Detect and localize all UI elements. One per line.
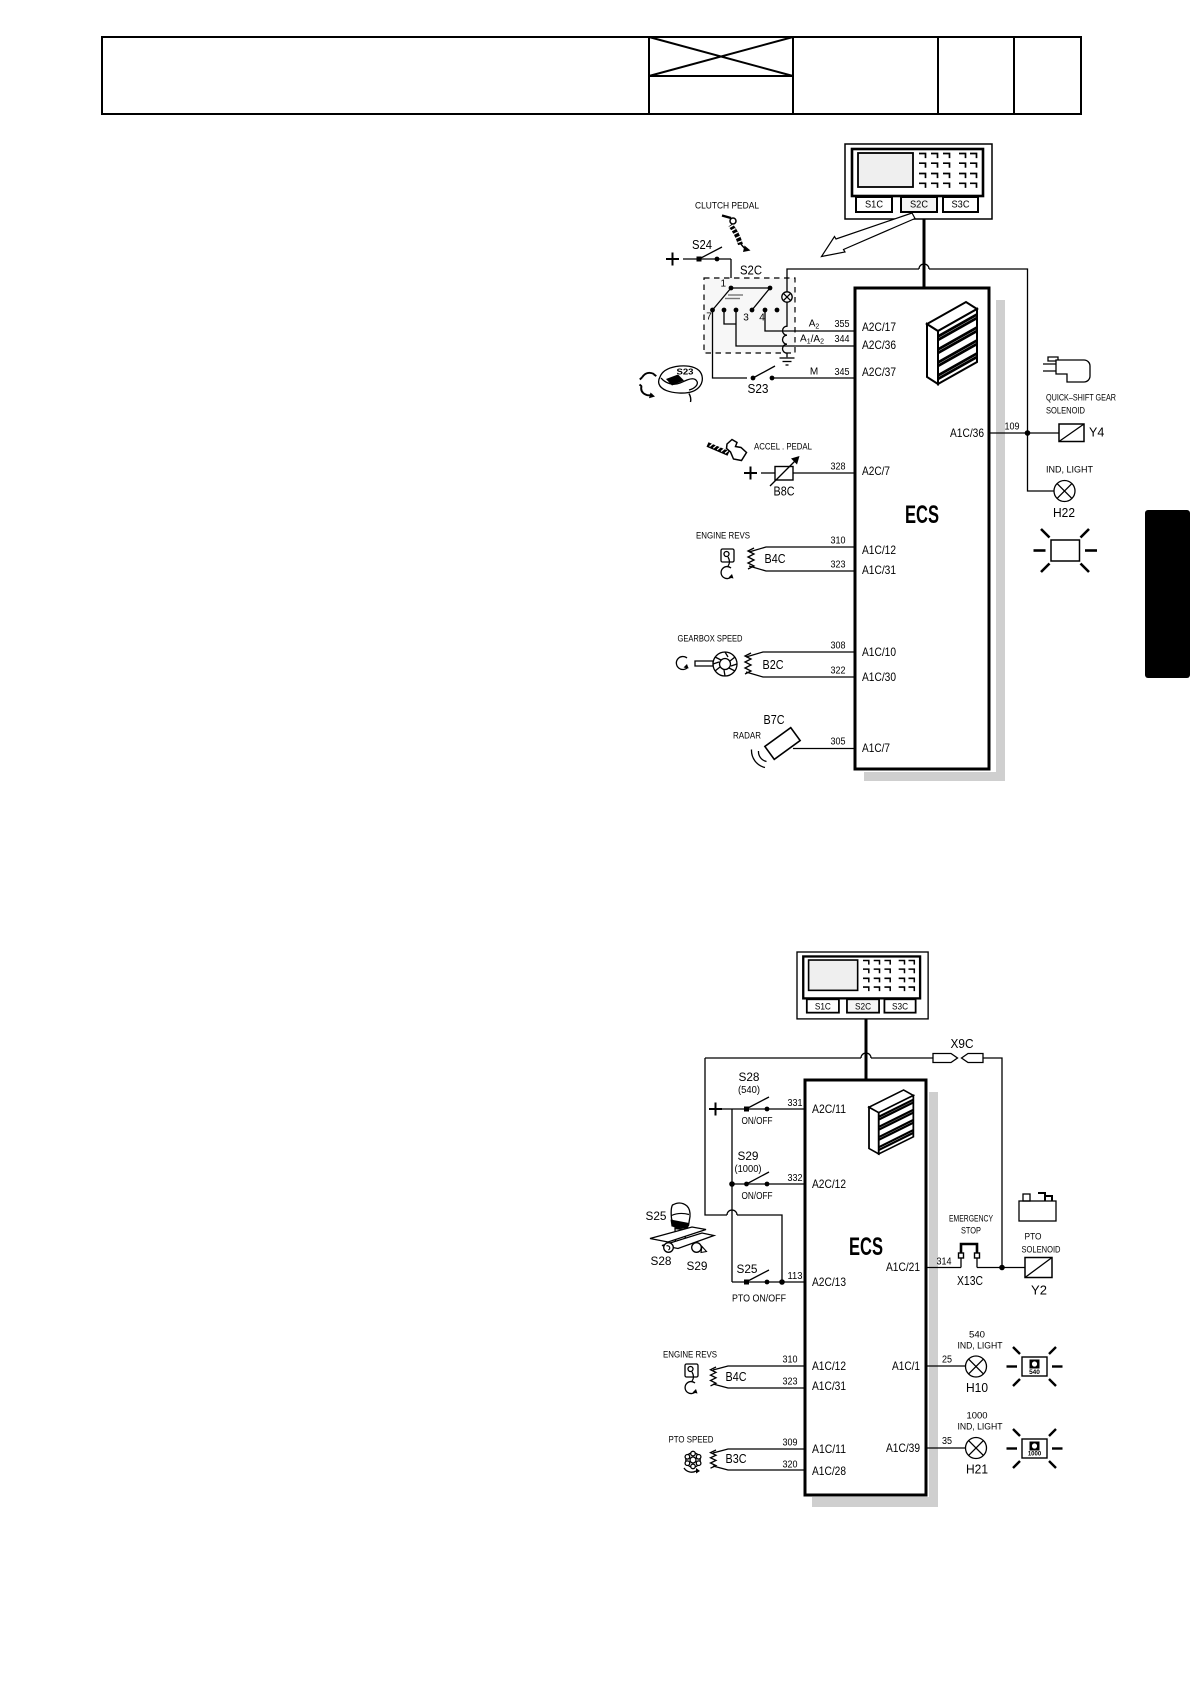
svg-text:PTO ON/OFF: PTO ON/OFF — [732, 1294, 786, 1305]
emergency stop jumper X13C — [957, 1244, 983, 1288]
gearbox speed sensor icon — [676, 652, 737, 676]
PTO speed sensor icon — [684, 1451, 701, 1473]
svg-text:SOLENOID: SOLENOID — [1046, 406, 1085, 417]
svg-text:322: 322 — [831, 666, 846, 677]
wire A1C/39 to H21 — [926, 1447, 966, 1449]
junction at Y2 branch — [999, 1265, 1005, 1271]
switch S24 — [683, 238, 731, 262]
svg-text:A1C/31: A1C/31 — [812, 1379, 846, 1393]
connector icon inside ECS 2 — [869, 1090, 913, 1154]
connector X9C — [933, 1054, 983, 1063]
wire pin7 down to S23 — [713, 310, 748, 378]
wire from lamp top over to Y4/H22 branch — [787, 269, 1028, 433]
svg-text:S25: S25 — [737, 1262, 758, 1276]
svg-text:355: 355 — [835, 319, 850, 330]
flashing 1000 indicator icon — [1007, 1429, 1063, 1468]
svg-text:S25: S25 — [646, 1209, 667, 1223]
engine revs sensor icon — [721, 549, 734, 579]
svg-text:Y2: Y2 — [1031, 1283, 1047, 1298]
quick-shift solenoid icon — [1043, 357, 1090, 382]
arrow pointing to S2C button — [822, 213, 916, 257]
svg-text:S29: S29 — [687, 1259, 708, 1273]
ECS1 pin labels — [862, 320, 984, 755]
wire S24 to S2C pin1 — [730, 259, 732, 288]
wire 355 to A2C/17 — [789, 330, 855, 332]
wire 305 to A1C/7 — [793, 748, 855, 750]
switch S29 — [729, 1149, 805, 1202]
svg-text:PTO SPEED: PTO SPEED — [669, 1435, 714, 1446]
svg-text:1: 1 — [720, 279, 726, 290]
svg-text:S23: S23 — [748, 382, 769, 396]
supply rail to S25/S29 — [731, 1109, 733, 1282]
wire hop at PTO branch — [727, 1210, 737, 1215]
wire from display S2C down to ECS — [923, 219, 926, 288]
indicator lamp H21 — [966, 1438, 987, 1459]
svg-text:540: 540 — [1029, 1369, 1040, 1376]
svg-text:S28: S28 — [739, 1070, 760, 1084]
black side tab — [1145, 510, 1190, 678]
svg-text:A1C/39: A1C/39 — [886, 1441, 920, 1455]
svg-text:H22: H22 — [1053, 506, 1075, 520]
svg-text:A1C/30: A1C/30 — [862, 670, 896, 684]
svg-text:328: 328 — [831, 462, 846, 473]
svg-text:B4C: B4C — [765, 552, 786, 566]
svg-text:540: 540 — [969, 1330, 985, 1341]
potentiometer B8C — [770, 456, 800, 499]
wire 344 to A2C/36 — [789, 345, 855, 347]
wire + to B8C — [761, 472, 775, 474]
svg-text:ACCEL . PEDAL: ACCEL . PEDAL — [754, 442, 812, 453]
display unit S1C/S2C/S3C (top schematic) — [845, 144, 992, 219]
svg-text:A1C/36: A1C/36 — [950, 426, 984, 440]
svg-text:308: 308 — [831, 641, 846, 652]
svg-text:332: 332 — [788, 1173, 803, 1184]
connector icon inside ECS 1 — [927, 302, 977, 384]
svg-text:IND, LIGHT: IND, LIGHT — [1046, 465, 1093, 476]
PTO solenoid icon — [1019, 1193, 1056, 1221]
svg-text:A2C/13: A2C/13 — [812, 1275, 846, 1289]
svg-text:X13C: X13C — [957, 1274, 983, 1288]
wire A1C/36 to junction — [989, 432, 1059, 434]
svg-text:B8C: B8C — [774, 485, 795, 499]
svg-text:A1C/10: A1C/10 — [862, 645, 896, 659]
solenoid valve Y2 — [1025, 1258, 1052, 1298]
svg-text:3: 3 — [743, 313, 749, 324]
svg-text:ECS: ECS — [905, 501, 939, 529]
svg-text:SOLENOID: SOLENOID — [1022, 1245, 1061, 1256]
twisted pair B4C — [748, 547, 855, 571]
flashing display indicator (gear) — [1034, 529, 1098, 572]
lamp coil to ground — [783, 302, 788, 357]
svg-text:RADAR: RADAR — [733, 731, 761, 742]
svg-text:109: 109 — [1005, 422, 1020, 433]
svg-text:PTO: PTO — [1025, 1232, 1042, 1243]
svg-text:331: 331 — [788, 1098, 803, 1109]
battery + node (B8C) — [744, 467, 757, 480]
svg-text:A2C/7: A2C/7 — [862, 464, 890, 478]
svg-text:IND, LIGHT: IND, LIGHT — [958, 1341, 1003, 1352]
switch unit S2C (dashed box) — [704, 263, 795, 354]
svg-text:309: 309 — [783, 1438, 798, 1449]
svg-text:A1C/28: A1C/28 — [812, 1464, 846, 1478]
wire X9C down to Y2 junction — [983, 1058, 1002, 1267]
wire A1C/21 to X13C — [926, 1267, 961, 1269]
svg-text:A2C/12: A2C/12 — [812, 1177, 846, 1191]
wire A1C/1 to H10 — [926, 1365, 966, 1367]
svg-text:A1C/1: A1C/1 — [892, 1359, 920, 1373]
svg-text:35: 35 — [942, 1436, 952, 1447]
svg-text:ENGINE REVS: ENGINE REVS — [663, 1350, 717, 1361]
contact row — [710, 308, 715, 313]
svg-text:A2C/11: A2C/11 — [812, 1102, 846, 1116]
ECS2 pin labels — [812, 1102, 920, 1478]
radar sensor B7C — [751, 728, 800, 768]
svg-text:EMERGENCY: EMERGENCY — [949, 1214, 993, 1225]
svg-text:345: 345 — [835, 367, 850, 378]
svg-text:344: 344 — [835, 334, 850, 345]
svg-text:S28: S28 — [651, 1254, 672, 1268]
svg-text:ON/OFF: ON/OFF — [742, 1191, 773, 1202]
display unit 2 — [797, 952, 928, 1019]
svg-text:S29: S29 — [738, 1149, 759, 1163]
accel pedal icon — [708, 440, 747, 461]
svg-text:S2C: S2C — [740, 263, 762, 278]
rotary contact bridge — [713, 288, 771, 310]
svg-text:B7C: B7C — [764, 713, 785, 727]
svg-text:4: 4 — [759, 313, 765, 324]
svg-text:S23: S23 — [677, 367, 694, 377]
solenoid valve Y4 — [1059, 424, 1104, 442]
svg-text:1000: 1000 — [967, 1411, 988, 1422]
svg-text:A1C/11: A1C/11 — [812, 1442, 846, 1456]
twisted pair B2C — [745, 652, 855, 677]
svg-text:H21: H21 — [966, 1463, 988, 1477]
svg-text:A2C/36: A2C/36 — [862, 338, 896, 352]
battery + node 2 — [709, 1103, 722, 1116]
junction at Y4 branch — [1025, 430, 1031, 436]
wire display 2 to ECS 2 — [865, 1019, 868, 1080]
svg-text:314: 314 — [937, 1257, 952, 1268]
wire to H22 — [1028, 433, 1055, 491]
svg-text:QUICK–SHIFT GEAR: QUICK–SHIFT GEAR — [1046, 393, 1116, 404]
ECS box 2 — [805, 1080, 926, 1495]
indicator lamp H22 — [1054, 481, 1075, 502]
svg-text:A2C/37: A2C/37 — [862, 365, 896, 379]
svg-text:1000: 1000 — [1028, 1452, 1042, 1458]
switch S23 — [748, 366, 776, 396]
svg-text:A2C/17: A2C/17 — [862, 320, 896, 334]
battery + node (S24) — [666, 253, 679, 266]
svg-text:25: 25 — [942, 1355, 952, 1366]
svg-text:323: 323 — [831, 560, 846, 571]
supply wire to X9C — [705, 1057, 933, 1059]
pin 1 — [729, 286, 734, 291]
svg-text:ECS: ECS — [849, 1233, 883, 1261]
svg-text:113: 113 — [788, 1271, 803, 1282]
supply branch down-left — [705, 1058, 782, 1282]
svg-text:B3C: B3C — [726, 1452, 747, 1466]
svg-text:A1C/12: A1C/12 — [862, 543, 896, 557]
flashing 540 indicator icon — [1007, 1347, 1063, 1386]
wire 345 to A2C/37 — [772, 377, 855, 379]
svg-text:ON/OFF: ON/OFF — [742, 1116, 773, 1127]
ECS box 1 — [855, 288, 989, 769]
ground — [780, 358, 795, 365]
svg-text:305: 305 — [831, 737, 846, 748]
clutch pedal icon — [722, 216, 751, 253]
wire hop over display feed 2 — [861, 1053, 871, 1058]
wire 328 to A2C/7 — [793, 472, 855, 474]
svg-text:A1C/7: A1C/7 — [862, 741, 890, 755]
svg-text:B2C: B2C — [763, 658, 784, 672]
svg-text:GEARBOX SPEED: GEARBOX SPEED — [678, 634, 743, 645]
PTO control console icon S25/S28/S29 — [650, 1203, 714, 1253]
svg-text:X9C: X9C — [951, 1037, 974, 1051]
svg-text:7: 7 — [706, 312, 712, 323]
svg-text:CLUTCH PEDAL: CLUTCH PEDAL — [695, 201, 759, 212]
switch S25 (PTO on/off) — [732, 1262, 805, 1305]
wire hop over display feed — [919, 264, 929, 269]
twisted pair B4C 2 — [711, 1366, 806, 1388]
engine revs sensor icon 2 — [685, 1364, 698, 1394]
S23 hand lever icon — [640, 366, 703, 402]
svg-text:A1C/21: A1C/21 — [886, 1260, 920, 1274]
svg-text:M: M — [810, 367, 818, 378]
svg-text:323: 323 — [783, 1377, 798, 1388]
wire pins2-3 bridge — [724, 310, 789, 346]
svg-text:ENGINE REVS: ENGINE REVS — [696, 531, 750, 542]
svg-text:A1C/31: A1C/31 — [862, 563, 896, 577]
svg-text:310: 310 — [831, 536, 846, 547]
svg-text:IND, LIGHT: IND, LIGHT — [958, 1422, 1003, 1433]
twisted pair B3C — [711, 1449, 806, 1470]
switch S28 — [722, 1070, 805, 1127]
svg-text:B4C: B4C — [726, 1370, 747, 1384]
ECS box 1 shadow — [996, 300, 1005, 780]
svg-text:S24: S24 — [692, 238, 712, 252]
svg-text:(540): (540) — [738, 1084, 760, 1096]
indicator lamp H10 — [966, 1356, 987, 1377]
svg-text:320: 320 — [783, 1460, 798, 1471]
ECS box 2 shadow — [929, 1092, 938, 1506]
title block frame — [102, 37, 1081, 114]
svg-text:(1000): (1000) — [735, 1163, 762, 1175]
lamp in S2C — [782, 292, 792, 302]
svg-text:H10: H10 — [966, 1381, 988, 1395]
svg-text:Y4: Y4 — [1089, 426, 1104, 440]
svg-text:STOP: STOP — [961, 1226, 981, 1237]
wire X13C to Y2 — [977, 1267, 1025, 1269]
wire pin4 down — [765, 310, 789, 331]
svg-text:A1C/12: A1C/12 — [812, 1359, 846, 1373]
svg-text:310: 310 — [783, 1355, 798, 1366]
